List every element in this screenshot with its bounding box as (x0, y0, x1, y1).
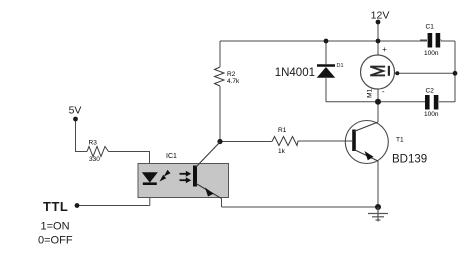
svg-text:M1: M1 (367, 88, 374, 97)
svg-text:+: + (382, 45, 387, 54)
transistor IC1 phototransistor (195, 142, 222, 199)
svg-text:C1: C1 (426, 24, 435, 31)
wire top rail left segment (220, 40, 427, 42)
wire diode top lead (325, 41, 327, 64)
op-amp ignore: optocoupler IC1 body (138, 164, 229, 198)
node 12V rail junction (376, 39, 381, 44)
svg-text:IC1: IC1 (166, 153, 177, 160)
wire bottom emitter rail (222, 206, 379, 208)
node 5V terminal (73, 117, 78, 122)
svg-text:TTL: TTL (43, 199, 68, 214)
wire top rail right segment (441, 40, 455, 42)
wire motor right lead (395, 72, 456, 74)
capacitor C2 (425, 95, 438, 110)
svg-text:D1: D1 (337, 63, 344, 69)
diode IC1 LED (142, 172, 158, 183)
resistor R2 (215, 67, 225, 86)
capacitor C1 (420, 33, 442, 48)
node motor bottom junction (375, 99, 381, 105)
svg-text:1=ON: 1=ON (41, 221, 70, 233)
svg-text:R3: R3 (89, 140, 98, 147)
svg-text:100n: 100n (424, 50, 439, 57)
wire motor bottom lead (377, 89, 379, 102)
wire diode bottom lead (325, 78, 327, 102)
svg-text:1N4001: 1N4001 (275, 67, 315, 79)
wire 12V drop (377, 22, 379, 41)
wire TTL lead (77, 205, 150, 207)
svg-text:330: 330 (89, 156, 100, 163)
diode D1 1N4001 (317, 66, 335, 78)
node ground junction (375, 204, 381, 210)
wire motor bottom rail right (439, 101, 455, 103)
svg-text:C2: C2 (426, 88, 435, 95)
wire motor top lead (377, 41, 379, 55)
transistor T1 BD139 (345, 121, 388, 164)
wire opto cathode drop (149, 185, 151, 206)
wire R2 upper lead (219, 41, 221, 67)
svg-text:100n: 100n (424, 111, 439, 118)
svg-text:1k: 1k (278, 148, 286, 155)
IC1 light arrows (160, 170, 171, 182)
node motor case terminal (395, 71, 399, 75)
svg-text:BD139: BD139 (392, 154, 427, 166)
svg-text:12V: 12V (371, 10, 390, 22)
wire base rail right (298, 140, 352, 142)
resistor R1 (272, 137, 298, 146)
svg-text:0=OFF: 0=OFF (38, 235, 73, 247)
wire R2 lower lead (219, 86, 221, 142)
wire 5V drop (76, 119, 88, 152)
svg-text:-: - (382, 87, 385, 96)
svg-text:5V: 5V (69, 105, 82, 117)
wire collector drop (377, 102, 379, 122)
ground (368, 207, 388, 222)
wire emitter to ground (377, 161, 379, 207)
IC1 phototransistor base arrows (180, 171, 192, 183)
resistor R3 (87, 147, 109, 157)
node 12V terminal (376, 20, 381, 25)
wire R3 to opto anode (109, 152, 150, 173)
svg-text:R2: R2 (227, 71, 236, 78)
svg-text:4.7k: 4.7k (227, 78, 240, 85)
node diode top junction (324, 39, 329, 44)
node TTL terminal (75, 203, 80, 208)
wire right riser (454, 41, 456, 102)
svg-text:T1: T1 (396, 137, 404, 144)
node R2 R1 collector junction (217, 139, 222, 144)
motor M1 (361, 45, 395, 98)
svg-text:R1: R1 (278, 127, 287, 134)
wire opto emitter drop (221, 199, 223, 208)
wire base rail left (220, 141, 272, 143)
wire motor bottom rail left (326, 101, 425, 103)
node right riser junction (453, 71, 458, 76)
